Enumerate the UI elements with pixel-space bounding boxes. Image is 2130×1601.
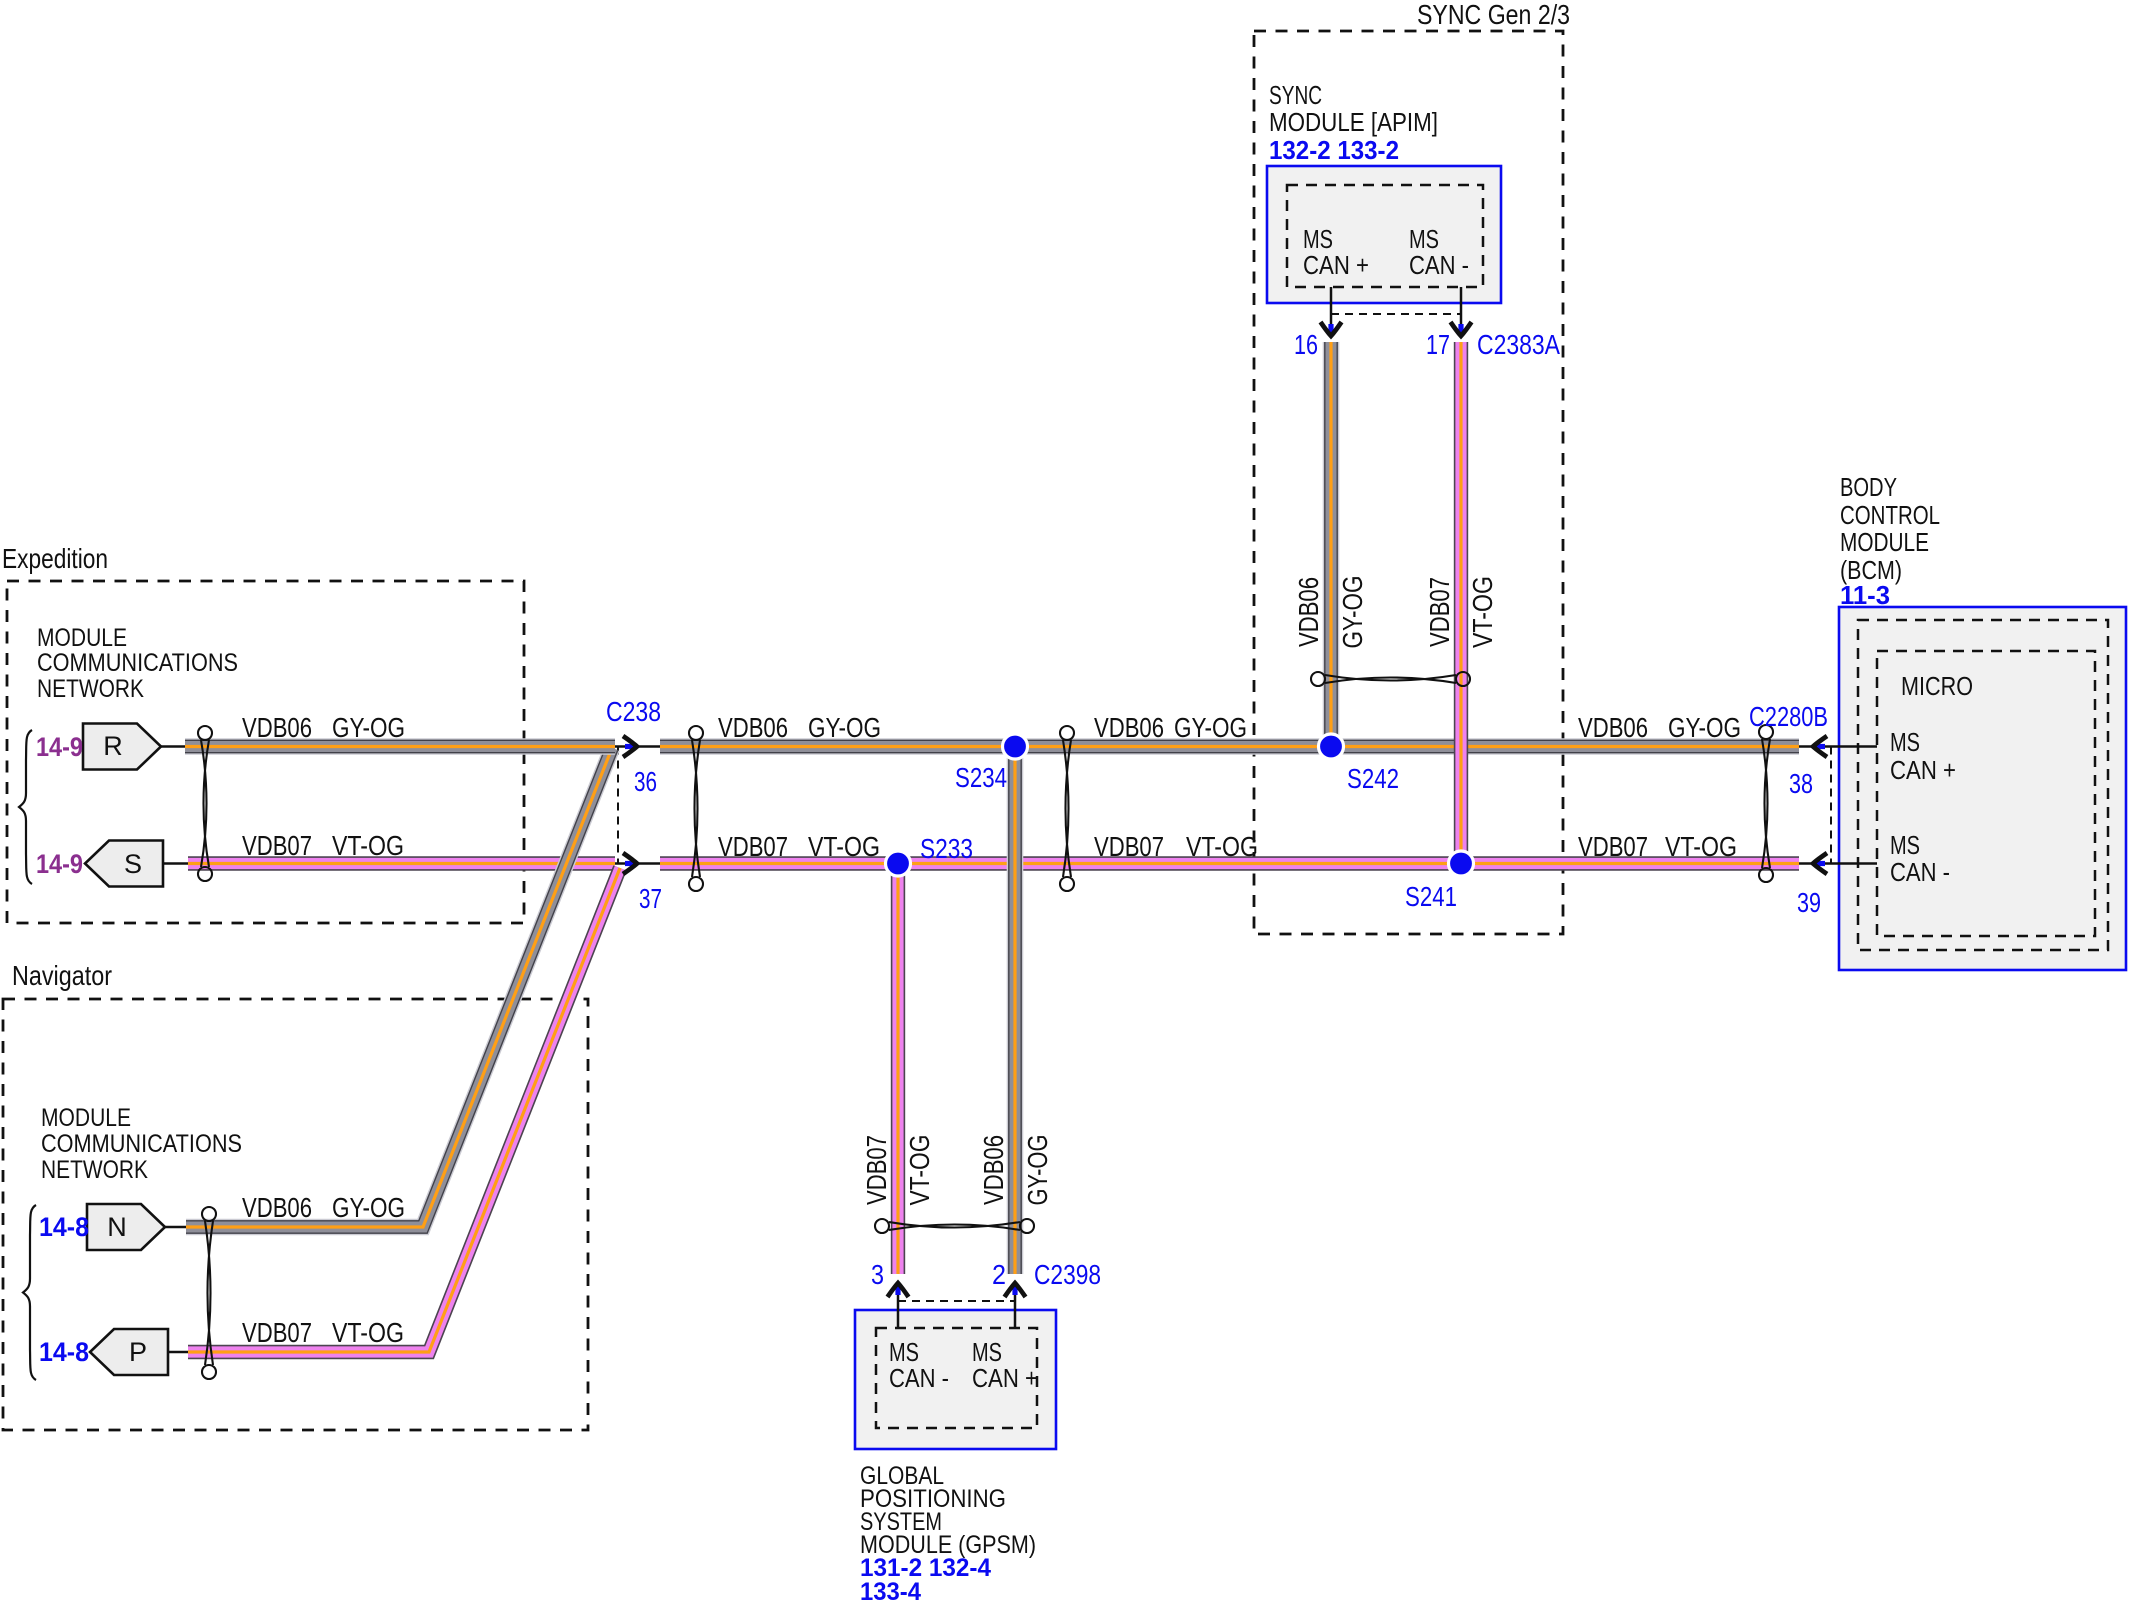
svg-text:CAN -: CAN - [1409, 250, 1469, 280]
wire VDB07 GPSM drop from S233 [891, 864, 905, 1275]
arrow into C2280B pin39 [1815, 861, 1825, 866]
svg-text:VT-OG: VT-OG [808, 831, 880, 862]
svg-text:MODULE: MODULE [41, 1104, 131, 1132]
svg-text:36: 36 [634, 766, 657, 797]
wire VDB07 APIM pin17 drop [1454, 342, 1468, 864]
svg-text:CONTROL: CONTROL [1840, 500, 1940, 530]
svg-text:11-3: 11-3 [1840, 580, 1890, 610]
lead R to wire [161, 745, 186, 748]
brace Expedition 14-9 [19, 730, 32, 884]
twisted pair Expedition [198, 726, 212, 881]
connector S [85, 841, 163, 887]
svg-text:VDB07: VDB07 [242, 1317, 312, 1348]
svg-text:COMMUNICATIONS: COMMUNICATIONS [41, 1130, 242, 1158]
splice S233 [886, 851, 911, 876]
svg-text:38: 38 [1789, 768, 1813, 799]
arrow into C2398 pin3 [895, 1285, 900, 1295]
svg-text:VT-OG: VT-OG [904, 1135, 935, 1206]
lead APIM pin17 [1460, 287, 1463, 332]
lead P to wire [168, 1351, 190, 1354]
svg-text:VT-OG: VT-OG [332, 830, 404, 861]
svg-text:14-8: 14-8 [39, 1337, 89, 1367]
splice S234 [1003, 734, 1028, 759]
svg-text:VDB06: VDB06 [1094, 712, 1164, 743]
connector N [87, 1204, 165, 1250]
svg-text:C238: C238 [606, 696, 661, 727]
wire VDB06 main bus [660, 738, 1799, 755]
svg-text:S233: S233 [920, 833, 973, 864]
Expedition group box [7, 581, 524, 923]
lead GPSM pin2 [1014, 1288, 1017, 1328]
lead C238 pin36 [615, 745, 661, 748]
svg-text:GY-OG: GY-OG [1668, 712, 1741, 743]
connector C2383A link line [1331, 313, 1461, 315]
svg-text:MS: MS [1890, 727, 1920, 757]
svg-text:14-9: 14-9 [36, 849, 83, 879]
svg-text:VDB07: VDB07 [1094, 831, 1164, 862]
svg-text:MODULE: MODULE [37, 624, 127, 652]
connector C2280B link line [1830, 747, 1832, 864]
svg-text:14-9: 14-9 [36, 732, 83, 762]
svg-text:MODULE [APIM]: MODULE [APIM] [1269, 107, 1438, 137]
twisted pair right of S234 [1060, 726, 1074, 891]
svg-text:VDB07: VDB07 [1578, 831, 1648, 862]
svg-text:CAN -: CAN - [889, 1363, 949, 1393]
svg-text:N: N [107, 1212, 127, 1242]
svg-text:S234: S234 [955, 762, 1007, 793]
svg-text:14-8: 14-8 [39, 1212, 89, 1242]
svg-text:SYNC: SYNC [1269, 80, 1322, 110]
svg-text:CAN +: CAN + [1890, 755, 1956, 785]
svg-text:S242: S242 [1347, 763, 1399, 794]
svg-text:3: 3 [871, 1259, 884, 1290]
svg-text:GY-OG: GY-OG [808, 712, 881, 743]
lead BCM MS CAN + [1799, 745, 1877, 748]
lead BCM MS CAN - [1799, 862, 1877, 865]
svg-text:VT-OG: VT-OG [1665, 831, 1737, 862]
svg-text:132-2 133-2: 132-2 133-2 [1269, 135, 1399, 165]
svg-text:Expedition: Expedition [2, 543, 108, 574]
module GPSM box [855, 1310, 1056, 1449]
connector R [83, 724, 161, 770]
arrow into C2383A pin17 [1458, 324, 1463, 334]
Navigator group box [3, 999, 588, 1430]
twisted pair Navigator [202, 1207, 216, 1379]
wire VDB06 Expedition R segment [185, 738, 615, 755]
lead GPSM pin3 [897, 1288, 900, 1328]
lead N to wire [165, 1226, 188, 1229]
svg-text:C2280B: C2280B [1749, 701, 1828, 732]
wire VDB06 GPSM drop from S234 [1007, 747, 1024, 1275]
svg-text:VDB06: VDB06 [1293, 577, 1324, 647]
wire VDB07 Navigator P segment [188, 868, 620, 1352]
wire VDB07 Expedition S segment [188, 856, 615, 870]
svg-text:VDB07: VDB07 [242, 830, 312, 861]
svg-text:BODY: BODY [1840, 472, 1897, 502]
splice S242 [1319, 734, 1344, 759]
svg-text:VDB07: VDB07 [718, 831, 788, 862]
svg-text:NETWORK: NETWORK [37, 675, 144, 703]
svg-text:39: 39 [1797, 887, 1821, 918]
MICRO block [1877, 651, 2095, 936]
svg-text:NETWORK: NETWORK [41, 1156, 148, 1184]
svg-text:GY-OG: GY-OG [1174, 712, 1247, 743]
svg-text:VDB07: VDB07 [1424, 577, 1455, 647]
module U1 SYNC APIM box [1267, 166, 1501, 303]
SYNC Gen 2/3 group box [1254, 31, 1563, 934]
svg-text:S: S [124, 849, 142, 879]
lead S to wire [163, 862, 189, 865]
svg-text:VDB06: VDB06 [242, 1192, 312, 1223]
svg-text:MODULE: MODULE [1840, 527, 1929, 557]
svg-text:SYNC Gen 2/3: SYNC Gen 2/3 [1417, 0, 1570, 30]
svg-text:S241: S241 [1405, 881, 1457, 912]
svg-text:C2383A: C2383A [1477, 329, 1560, 360]
twisted pair APIM drops [1311, 672, 1470, 686]
svg-text:VDB06: VDB06 [1578, 712, 1648, 743]
svg-text:VT-OG: VT-OG [1467, 576, 1498, 648]
svg-text:MS: MS [1890, 830, 1920, 860]
svg-text:GY-OG: GY-OG [332, 712, 405, 743]
connector C2398 link line [898, 1300, 1015, 1302]
svg-text:R: R [103, 731, 123, 761]
svg-text:16: 16 [1294, 329, 1318, 360]
svg-text:CAN +: CAN + [972, 1363, 1038, 1393]
svg-text:17: 17 [1426, 329, 1450, 360]
wire VDB06 Navigator N segment [186, 748, 612, 1227]
lead C238 pin37 [615, 862, 661, 865]
lead APIM pin16 [1330, 287, 1333, 332]
arrow into C238 pin37 [625, 861, 635, 866]
module BCM box [1839, 607, 2126, 970]
svg-text:GY-OG: GY-OG [332, 1192, 405, 1223]
svg-text:VT-OG: VT-OG [1186, 831, 1258, 862]
svg-text:2: 2 [992, 1259, 1006, 1290]
svg-text:Navigator: Navigator [12, 960, 112, 991]
wire VDB06 APIM pin16 drop [1323, 342, 1340, 747]
arrow into C238 pin36 [625, 744, 635, 749]
svg-text:133-4: 133-4 [860, 1578, 921, 1601]
brace Navigator 14-8 [23, 1205, 36, 1380]
twisted pair GPSM drops [875, 1219, 1034, 1233]
connector C238 link line [617, 747, 619, 864]
wire VDB07 main bus [660, 856, 1799, 870]
svg-text:VT-OG: VT-OG [332, 1317, 404, 1348]
svg-text:VDB06: VDB06 [978, 1135, 1009, 1205]
svg-text:P: P [129, 1337, 147, 1367]
svg-text:CAN +: CAN + [1303, 250, 1369, 280]
splice S241 [1449, 851, 1474, 876]
svg-text:GY-OG: GY-OG [1337, 576, 1368, 649]
svg-text:CAN -: CAN - [1890, 857, 1950, 887]
svg-text:VDB06: VDB06 [718, 712, 788, 743]
connector P [90, 1329, 168, 1375]
arrow into C2383A pin16 [1328, 324, 1333, 334]
arrow into C2280B pin38 [1815, 744, 1825, 749]
svg-text:C2398: C2398 [1034, 1259, 1101, 1290]
svg-text:VDB07: VDB07 [861, 1135, 892, 1205]
svg-text:VDB06: VDB06 [242, 712, 312, 743]
svg-text:GY-OG: GY-OG [1022, 1135, 1053, 1206]
twisted pair before C2280B [1759, 725, 1773, 882]
svg-text:MICRO: MICRO [1901, 671, 1973, 701]
svg-text:COMMUNICATIONS: COMMUNICATIONS [37, 649, 238, 677]
twisted pair after C238 [689, 726, 703, 891]
arrow into C2398 pin2 [1012, 1285, 1017, 1295]
svg-text:37: 37 [639, 883, 662, 914]
